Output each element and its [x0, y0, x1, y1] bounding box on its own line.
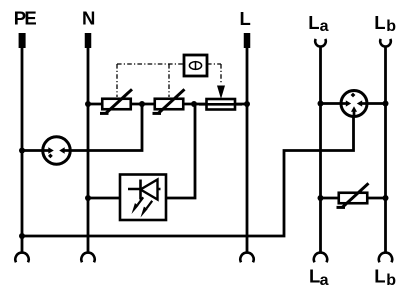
svg-text:L: L [240, 8, 251, 29]
svg-text:L: L [374, 12, 385, 33]
svg-text:PE: PE [14, 8, 37, 29]
svg-text:b: b [386, 18, 396, 35]
svg-text:b: b [386, 272, 396, 289]
svg-text:a: a [320, 272, 329, 289]
svg-text:N: N [82, 8, 95, 29]
svg-text:L: L [308, 12, 319, 33]
svg-text:a: a [320, 18, 329, 35]
svg-text:L: L [374, 266, 385, 287]
